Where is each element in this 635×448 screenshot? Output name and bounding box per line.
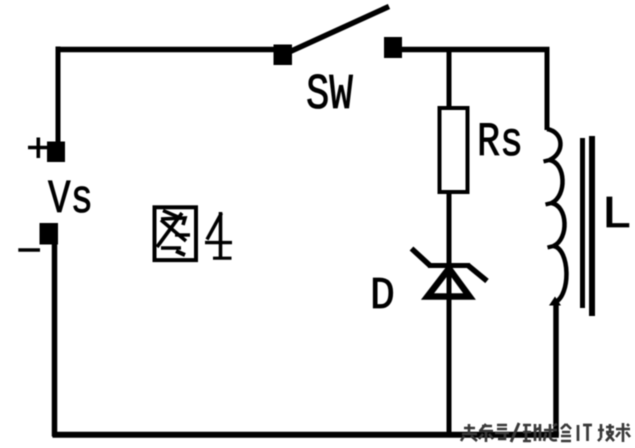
图 inner stroke dot <box>176 251 185 255</box>
watermark glyph 条 <box>479 424 493 442</box>
figure number 4 crossbar <box>205 241 232 244</box>
watermark glyph 号 <box>495 425 509 439</box>
watermark glyph 技 <box>598 424 614 441</box>
svg-text:D: D <box>370 271 395 322</box>
figure number 4 foot serif <box>213 257 232 260</box>
inductor L bottom arrow <box>549 297 561 306</box>
inductor L coil tick 1 <box>544 160 550 162</box>
inductor L coil bump 2 <box>550 160 563 203</box>
watermark letters IT <box>578 425 592 441</box>
watermark glyph 术 <box>616 423 630 442</box>
inductor L coil bump 4 <box>554 246 567 303</box>
wire inductor bottom vertical <box>553 303 559 436</box>
resistor Rs body <box>440 108 468 192</box>
diode D triangle <box>428 269 470 297</box>
图 inner stroke long diagonal <box>157 213 182 247</box>
wire diode to bottom <box>447 296 452 436</box>
watermark glyph 卧 <box>523 424 540 441</box>
svg-text:Rs: Rs <box>477 116 523 170</box>
inductor L coil bump 3 <box>552 203 565 246</box>
wire left vertical upper (Vs + lead) <box>56 47 61 146</box>
图 inner stroke top diagonal <box>163 211 178 218</box>
inductor L coil bump 1 <box>547 129 560 160</box>
watermark glyph 头 <box>461 424 477 441</box>
plus sign <box>28 138 49 159</box>
svg-text:SW: SW <box>306 68 353 124</box>
wire top horizontal left segment <box>56 47 277 53</box>
wire through diode center <box>447 268 452 296</box>
inductor L coil tick 3 <box>548 246 554 248</box>
inductor L coil tick 2 <box>546 203 552 205</box>
label D <box>370 271 395 322</box>
terminal square + of Vs <box>47 142 65 163</box>
switch SW right terminal square <box>384 37 402 58</box>
switch SW left terminal square <box>274 45 293 66</box>
wire top horizontal right segment <box>400 47 550 53</box>
watermark glyph 龙 <box>544 424 557 441</box>
wire top right corner vertical <box>545 47 550 130</box>
figure label box of 图 <box>155 207 197 260</box>
label Vs <box>48 173 93 226</box>
label SW <box>306 68 353 124</box>
wire bottom horizontal <box>53 432 559 438</box>
svg-text:L: L <box>601 190 632 241</box>
wire left vertical lower <box>52 244 58 437</box>
terminal square - of Vs <box>40 223 59 245</box>
svg-text:Vs: Vs <box>48 173 93 226</box>
wire junction down to resistor <box>447 47 452 107</box>
diode D right wing <box>468 265 488 281</box>
label Rs <box>477 116 523 170</box>
label L <box>601 190 632 241</box>
watermark slash <box>511 423 519 442</box>
minus sign <box>18 248 40 252</box>
图 inner stroke lower dash <box>161 246 181 249</box>
图 inner stroke horizontal hook <box>161 218 185 225</box>
图 inner stroke back diagonal <box>161 220 186 241</box>
switch SW arm <box>287 7 389 54</box>
diode D left wing <box>412 249 431 267</box>
figure number 4 stem <box>219 212 223 258</box>
wire resistor to diode <box>447 194 452 266</box>
figure number 4 diagonal <box>207 213 222 240</box>
inductor core line 1 <box>580 138 585 308</box>
watermark glyph 会 <box>561 424 571 441</box>
图 inner stroke right dash <box>175 233 190 236</box>
diode D cathode bar <box>428 263 470 268</box>
inductor core line 2 <box>589 136 595 316</box>
